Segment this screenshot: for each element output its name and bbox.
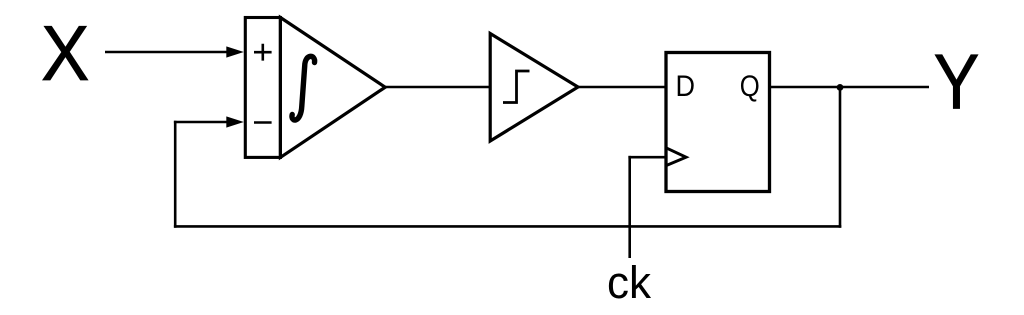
pin label - bbox=[254, 121, 272, 124]
node Y label bbox=[934, 40, 980, 126]
D flip-flop box bbox=[666, 53, 770, 192]
svg-text:X: X bbox=[41, 11, 90, 97]
svg-text:Y: Y bbox=[934, 40, 980, 126]
integrator U1 triangle body bbox=[280, 18, 385, 158]
pin label Q bbox=[740, 70, 760, 103]
step symbol inside comparator bbox=[503, 71, 530, 103]
node X label bbox=[41, 11, 90, 97]
wire: feedback to - input bbox=[174, 121, 229, 124]
clock wire: vertical from ck bbox=[628, 156, 631, 258]
arrowhead into - input bbox=[226, 116, 244, 127]
wire: X to summer + input bbox=[105, 51, 229, 54]
integrator U1 summing rectangle bbox=[245, 18, 280, 158]
svg-text:Q: Q bbox=[740, 70, 760, 103]
feedback wire: vertical up to - input bbox=[174, 121, 177, 228]
arrowhead into + input bbox=[226, 46, 244, 57]
integral symbol bbox=[292, 56, 315, 120]
wire: comparator to D input bbox=[578, 86, 666, 89]
junction node dot bbox=[837, 84, 844, 91]
comparator (quantizer) triangle bbox=[490, 34, 578, 142]
feedback wire: vertical from node bbox=[839, 87, 842, 227]
clock edge triangle bbox=[666, 148, 686, 166]
pin label + bbox=[254, 44, 272, 61]
clock wire: horizontal into clock pin bbox=[628, 156, 666, 159]
net label ck bbox=[607, 257, 651, 308]
svg-text:ck: ck bbox=[607, 257, 651, 308]
svg-text:D: D bbox=[676, 70, 696, 103]
feedback wire: horizontal bottom run bbox=[174, 225, 841, 228]
wire: integrator to comparator bbox=[385, 86, 491, 89]
pin label D bbox=[676, 70, 696, 103]
wire: Q output to Y bbox=[770, 86, 930, 89]
